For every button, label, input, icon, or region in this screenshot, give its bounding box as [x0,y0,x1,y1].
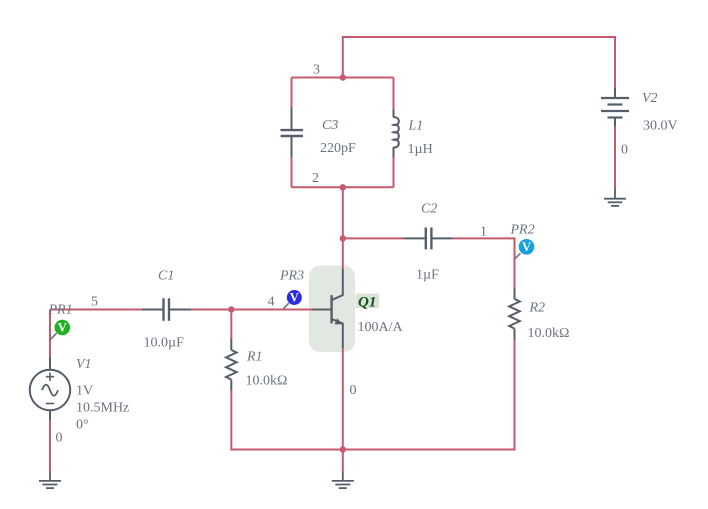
source V1 [30,357,70,420]
label Q1 [356,294,380,311]
wire node 4 down to R1 [230,310,232,340]
wire top rail from tank to V2 [343,37,615,88]
svg-text:0°: 0° [76,418,89,433]
svg-text:0: 0 [621,143,628,158]
wire V2 to ground [614,127,616,189]
svg-text:C3: C3 [322,118,338,133]
wire tank top (node 3) [292,77,394,79]
svg-text:V: V [522,240,531,254]
resistor R2 [509,289,520,340]
svg-text:10.0kΩ: 10.0kΩ [528,326,570,341]
svg-text:V1: V1 [76,357,92,372]
svg-text:R2: R2 [529,301,546,316]
svg-text:1µF: 1µF [416,268,439,283]
Q1 highlight box [309,266,355,352]
svg-text:L1: L1 [408,119,424,134]
svg-text:220pF: 220pF [320,141,356,156]
wire tank right upper [393,78,395,110]
svg-text:100A/A: 100A/A [358,320,404,335]
svg-text:PR2: PR2 [510,223,535,238]
svg-text:PR3: PR3 [279,269,304,284]
svg-text:2: 2 [312,171,319,186]
svg-text:PR1: PR1 [48,303,73,318]
ground (emitter) [332,472,354,489]
capacitor C3 [281,108,304,158]
svg-text:C1: C1 [158,269,174,284]
svg-text:C2: C2 [421,202,437,217]
resistor R1 [226,339,237,391]
probe PR2 [515,239,535,259]
svg-text:1V: 1V [76,384,93,399]
svg-text:R1: R1 [246,350,263,365]
svg-text:0: 0 [350,383,357,398]
svg-text:1µH: 1µH [408,142,433,157]
svg-text:10.0µF: 10.0µF [144,336,185,351]
svg-text:4: 4 [268,295,275,310]
junction emitter/bottom rail [340,446,346,452]
transistor Q1 [313,269,343,348]
svg-text:10.0kΩ: 10.0kΩ [246,374,288,389]
wire R2 to bottom rail [343,340,515,450]
wire emitter to ground [342,348,344,472]
wire tank left upper [291,78,293,108]
svg-text:V2: V2 [642,91,658,106]
svg-text:Q1: Q1 [358,295,376,311]
svg-text:0: 0 [56,431,63,446]
probe PR3 [284,290,302,309]
svg-text:5: 5 [91,295,98,310]
probe PR1 [50,320,70,340]
junction node 2 [340,184,346,190]
svg-text:10.5MHz: 10.5MHz [76,401,129,416]
svg-text:V: V [58,321,67,335]
wire C2 branch [343,238,515,288]
wire node2 to collector [342,187,344,269]
svg-text:V: V [290,291,299,305]
svg-text:30.0V: 30.0V [643,119,678,134]
junction node 3 [340,74,346,80]
wire input horizontal (node 5 / node 4) [50,309,313,311]
svg-text:3: 3 [313,63,320,78]
svg-text:1: 1 [480,225,487,240]
wire tank bottom (node 2) [292,186,394,188]
wire tank left lower [291,158,293,188]
battery V2 [601,88,629,127]
wire bottom rail left [231,391,342,450]
capacitor C1 [142,298,191,321]
capacitor C2 [404,227,453,249]
ground (V2) [604,189,626,206]
wire tank right lower [393,157,395,187]
junction collector/C2 [340,235,346,241]
inductor L1 [394,110,399,158]
junction node 4 [228,306,234,312]
ground (V1) [39,472,61,489]
wire V1 branch [49,310,51,472]
